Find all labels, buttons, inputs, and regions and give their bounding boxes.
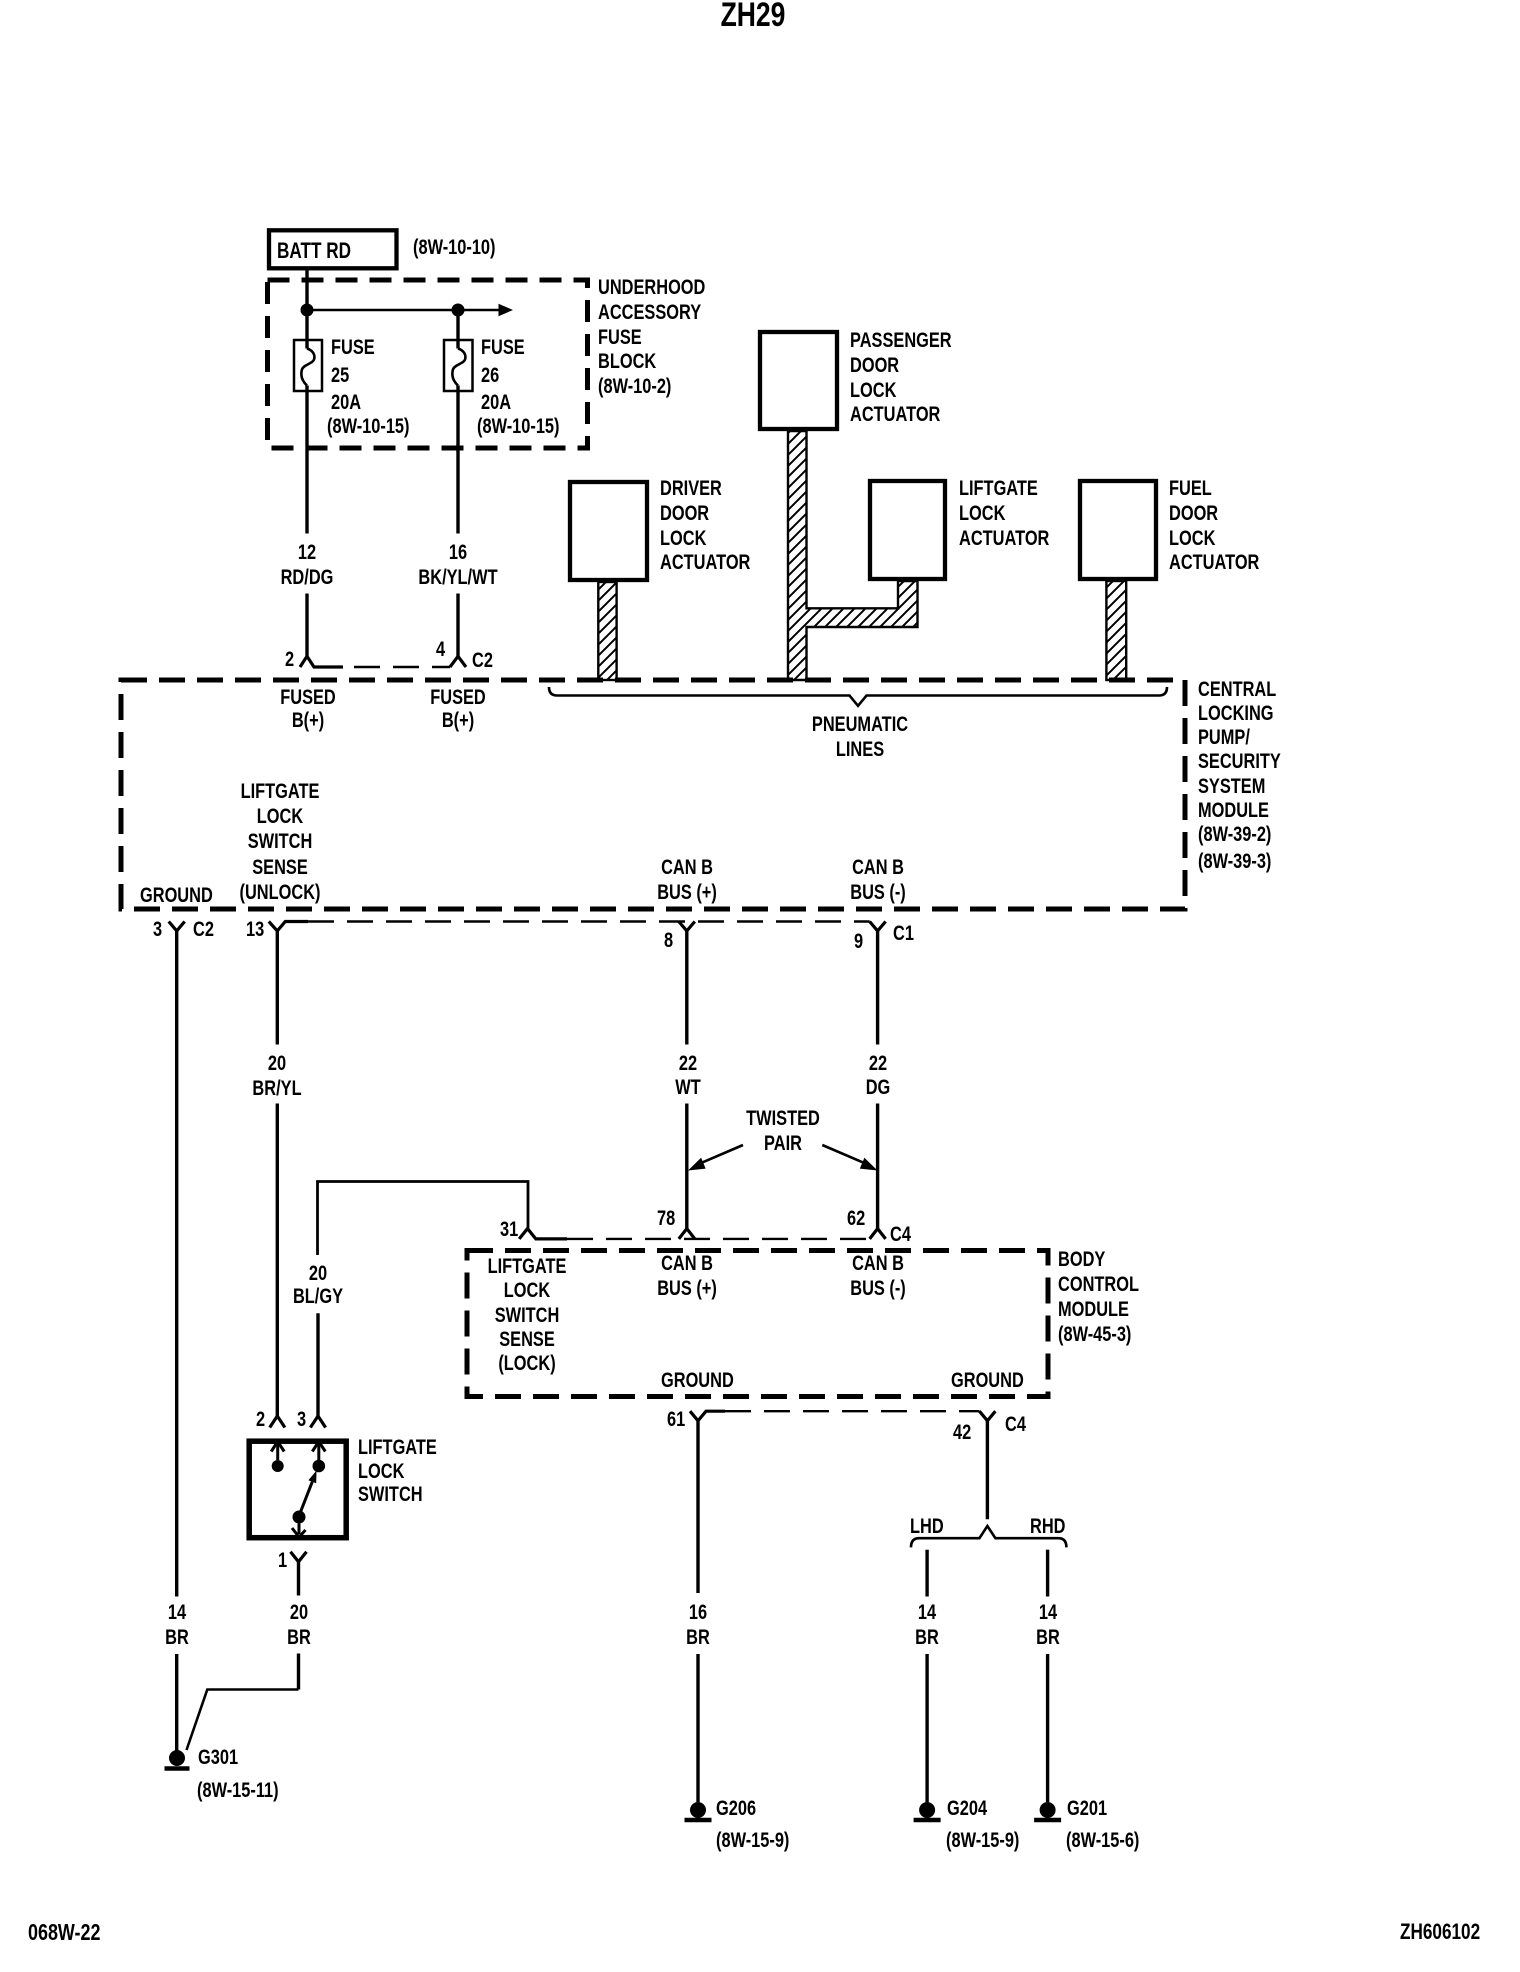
connector fork pin 4 C2 xyxy=(450,656,466,667)
pin 61 label xyxy=(667,1408,685,1433)
wire fuse 25 down (12 RD/DG upper) xyxy=(305,386,308,534)
node pneumatic lines label xyxy=(811,713,907,762)
pin 42 label xyxy=(953,1421,971,1446)
wire 14 BR label LHD xyxy=(915,1601,939,1650)
ground G201 reference xyxy=(1066,1829,1139,1854)
wire 14 BR LHD upper xyxy=(925,1550,928,1597)
node connector C2 bottom label xyxy=(193,918,214,943)
node central locking pump module references xyxy=(1198,822,1271,875)
twisted pair callout arrow right xyxy=(822,1145,864,1163)
connector fork pin 8 C1 xyxy=(679,922,695,931)
switch contact chevron pin 3 xyxy=(312,1442,325,1452)
ground G204 bar xyxy=(914,1818,941,1823)
wire pin 42 to LHD/RHD split xyxy=(986,1421,989,1520)
pin 4 label xyxy=(436,638,445,663)
switch contact chevron pin 2 xyxy=(271,1442,284,1452)
node fuel door lock actuator label xyxy=(1169,477,1259,576)
switch contact stem pin 3 xyxy=(317,1444,320,1460)
wire ground 14 BR upper (pin 3 to label) xyxy=(175,931,178,1597)
arrowhead bus feed xyxy=(499,304,514,316)
node CAN B bus minus label bcm xyxy=(850,1252,906,1301)
ground G206 symbol xyxy=(690,1802,706,1818)
fuse 26 element xyxy=(452,349,465,386)
pin 78 label xyxy=(657,1207,675,1232)
node LHD label xyxy=(910,1515,944,1540)
fuse 25 element xyxy=(301,349,314,386)
switch pin 1 label xyxy=(278,1549,287,1574)
wire 16 BR label xyxy=(686,1601,710,1650)
wire 20 BR/YL label xyxy=(253,1051,302,1101)
wire 22 DG upper (pin 9 to label) xyxy=(876,931,879,1045)
connector fork pin 61 C4 xyxy=(690,1411,725,1421)
node (8W-10-10) reference xyxy=(413,236,496,261)
node footer sheet number xyxy=(28,1920,100,1945)
wire 14 BR label RHD xyxy=(1036,1601,1060,1650)
wire 20 BR label xyxy=(287,1601,311,1650)
connector fork pin 31 C4 xyxy=(519,1229,567,1239)
wire 12 RD/DG lower xyxy=(305,594,308,657)
wire 14 BR RHD upper xyxy=(1046,1550,1049,1597)
ground G301 reference xyxy=(197,1779,279,1804)
ground G301 label xyxy=(198,1746,238,1771)
pin 8 label xyxy=(664,929,673,954)
switch contact dot pin 3 xyxy=(313,1460,326,1473)
wire 22 WT label xyxy=(675,1052,700,1100)
node fused B(+) label 2 xyxy=(430,686,486,733)
node liftgate lock switch sense lock label xyxy=(488,1255,567,1376)
ground G201 label xyxy=(1067,1797,1107,1822)
wire 14 BR label G301 xyxy=(165,1601,189,1650)
node connector C2 top label xyxy=(472,649,493,674)
node passenger door lock actuator label xyxy=(850,329,952,428)
node connector C4 top label xyxy=(890,1223,911,1248)
node liftgate lock switch label xyxy=(358,1436,437,1506)
ground G301 symbol xyxy=(169,1750,185,1766)
liftgate lock actuator box xyxy=(870,481,945,579)
wire 20 BR lower to jog xyxy=(297,1654,300,1690)
connector fork pin 42 C4 xyxy=(979,1411,995,1421)
fuse F25 value label xyxy=(331,334,375,417)
connector C1 dashed link line xyxy=(308,920,870,922)
ground G204 reference xyxy=(946,1829,1019,1854)
twisted pair callout arrow left xyxy=(702,1145,744,1163)
node body control module label xyxy=(1058,1247,1139,1347)
pin 9 label xyxy=(854,930,863,955)
pneumatic line driver actuator (hatched) xyxy=(598,582,616,680)
ground G206 bar xyxy=(685,1818,712,1823)
wire 22 WT upper (pin 8 to label) xyxy=(685,931,688,1045)
node ground label bcm left xyxy=(661,1369,734,1394)
pin 31 label xyxy=(500,1218,518,1243)
wire 20 BL/GY lower (label to switch pin 3) xyxy=(316,1313,319,1416)
switch pole exit line xyxy=(298,1524,301,1535)
fuse F25 reference xyxy=(327,415,410,440)
wire 12 RD/DG label xyxy=(281,541,334,590)
connector fork pin 13 C1 xyxy=(269,922,308,931)
connector fork pin 2 C2 xyxy=(300,656,343,667)
fuse F26 reference xyxy=(477,415,560,440)
switch pin 2 label xyxy=(256,1408,265,1433)
brace pneumatic lines xyxy=(549,687,1167,706)
wire bus to fuse 26 with arrow xyxy=(307,309,499,312)
switch movable arm xyxy=(301,1482,313,1512)
connector C4 dashed link line bottom xyxy=(725,1410,979,1412)
wire 16 BK/YL/WT lower xyxy=(456,594,459,657)
node driver door lock actuator label xyxy=(660,477,750,576)
connector fork pin 3 C2 xyxy=(169,922,185,931)
wire 20 BR/YL upper (pin 13 to label) xyxy=(276,931,279,1045)
connector fork pin 78 C4 xyxy=(679,1229,695,1239)
node ground label module xyxy=(140,884,213,909)
fuse 26 body xyxy=(444,340,473,391)
wire jog to ground G301 xyxy=(187,1690,299,1751)
wire 22 WT lower (label to pin 78) xyxy=(685,1104,688,1229)
switch contact dot pin 2 xyxy=(272,1460,284,1472)
node BATT RD feed box xyxy=(269,230,397,268)
wire 20 BR/YL lower (label to switch pin 2) xyxy=(276,1104,279,1417)
ground G301 bar xyxy=(165,1766,190,1771)
pin 3 label xyxy=(153,918,162,943)
ground G204 label xyxy=(947,1797,987,1822)
node twisted pair label xyxy=(746,1106,820,1156)
pin 13 label xyxy=(246,918,264,943)
fuse F26 value label xyxy=(481,334,525,417)
node CAN B bus plus label module xyxy=(657,856,717,904)
node title ZH29 xyxy=(720,0,785,32)
connector fork switch pin 2 xyxy=(270,1416,285,1428)
node central locking pump module label xyxy=(1198,678,1281,823)
ground G206 label xyxy=(716,1797,756,1822)
switch pin 3 label xyxy=(297,1408,306,1433)
switch contact stem pin 2 xyxy=(276,1444,279,1460)
switch pole dot xyxy=(293,1511,306,1524)
wire 14 BR RHD lower (to G201) xyxy=(1046,1654,1049,1802)
node underhood accessory fuse block label xyxy=(598,276,705,400)
arrowhead twisted pair left xyxy=(688,1158,706,1171)
node liftgate lock switch sense unlock label xyxy=(240,779,321,905)
arrowhead switch arm xyxy=(308,1471,316,1484)
wire 16 BR upper (pin 61 to label) xyxy=(696,1421,699,1593)
wire 20 BR upper (switch pin 1) xyxy=(297,1562,300,1596)
node BATT RD label xyxy=(277,239,351,264)
ground G206 reference xyxy=(716,1829,789,1854)
passenger door lock actuator box xyxy=(760,332,837,429)
node ground label bcm right xyxy=(951,1369,1024,1394)
connector fork switch pin 1 xyxy=(291,1552,307,1562)
wire ground 14 BR lower (label to G301) xyxy=(175,1654,178,1751)
wire 16 BR lower (label to G206) xyxy=(696,1654,699,1802)
pin 2 label xyxy=(285,648,294,673)
fuel door lock actuator box xyxy=(1080,481,1156,579)
connector C2 dashed link line xyxy=(315,666,450,668)
connector fork pin 62 C4 xyxy=(870,1229,886,1239)
fuse 25 body xyxy=(294,340,322,391)
driver door lock actuator box xyxy=(570,482,647,580)
arrowhead twisted pair right xyxy=(860,1158,878,1171)
brace LHD/RHD split xyxy=(911,1526,1066,1547)
liftgate lock switch box xyxy=(249,1441,346,1538)
connector C4 dashed link line top xyxy=(567,1238,870,1240)
switch pole exit chevron xyxy=(292,1528,306,1537)
pneumatic line fuel actuator (hatched) xyxy=(1106,581,1126,680)
wire BATT RD to fuse 25 xyxy=(305,271,308,349)
connector fork switch pin 3 xyxy=(310,1416,325,1428)
node CAN B bus plus label bcm xyxy=(657,1252,717,1301)
body control module box (dashed) xyxy=(467,1251,1048,1397)
central locking pump module box (dashed) xyxy=(121,680,1185,909)
wire 22 DG lower (label to pin 62) xyxy=(876,1104,879,1229)
node liftgate lock actuator label xyxy=(959,477,1049,551)
junction dot at fuse 26 xyxy=(452,304,465,317)
ground G204 symbol xyxy=(919,1802,935,1818)
ground G201 symbol xyxy=(1040,1802,1056,1818)
wire 22 DG label xyxy=(866,1052,891,1100)
pneumatic line passenger + liftgate actuators (hatched) xyxy=(788,431,918,680)
underhood accessory fuse block (dashed box) xyxy=(268,280,588,448)
wire 20 BL/GY elbow to pin 31 xyxy=(318,1182,529,1256)
node CAN B bus minus label module xyxy=(850,856,906,904)
node fused B(+) label 1 xyxy=(280,686,336,733)
wire 16 BK/YL/WT label xyxy=(418,541,497,590)
wire 20 BL/GY label xyxy=(292,1262,342,1309)
node connector C4 bottom label xyxy=(1005,1413,1026,1438)
pin 62 label xyxy=(847,1207,865,1232)
node connector C1 label xyxy=(893,922,914,947)
wire junction dot to fuse 26 xyxy=(456,310,459,349)
node RHD label xyxy=(1030,1515,1065,1540)
wire fuse 26 down (16 BK/YL/WT upper) xyxy=(456,386,459,534)
wire 14 BR LHD lower (to G204) xyxy=(925,1654,928,1802)
ground G201 bar xyxy=(1034,1818,1061,1823)
node footer drawing number xyxy=(1400,1920,1480,1945)
junction dot at fuse 25 xyxy=(301,304,314,317)
connector fork pin 9 C1 xyxy=(870,922,886,931)
